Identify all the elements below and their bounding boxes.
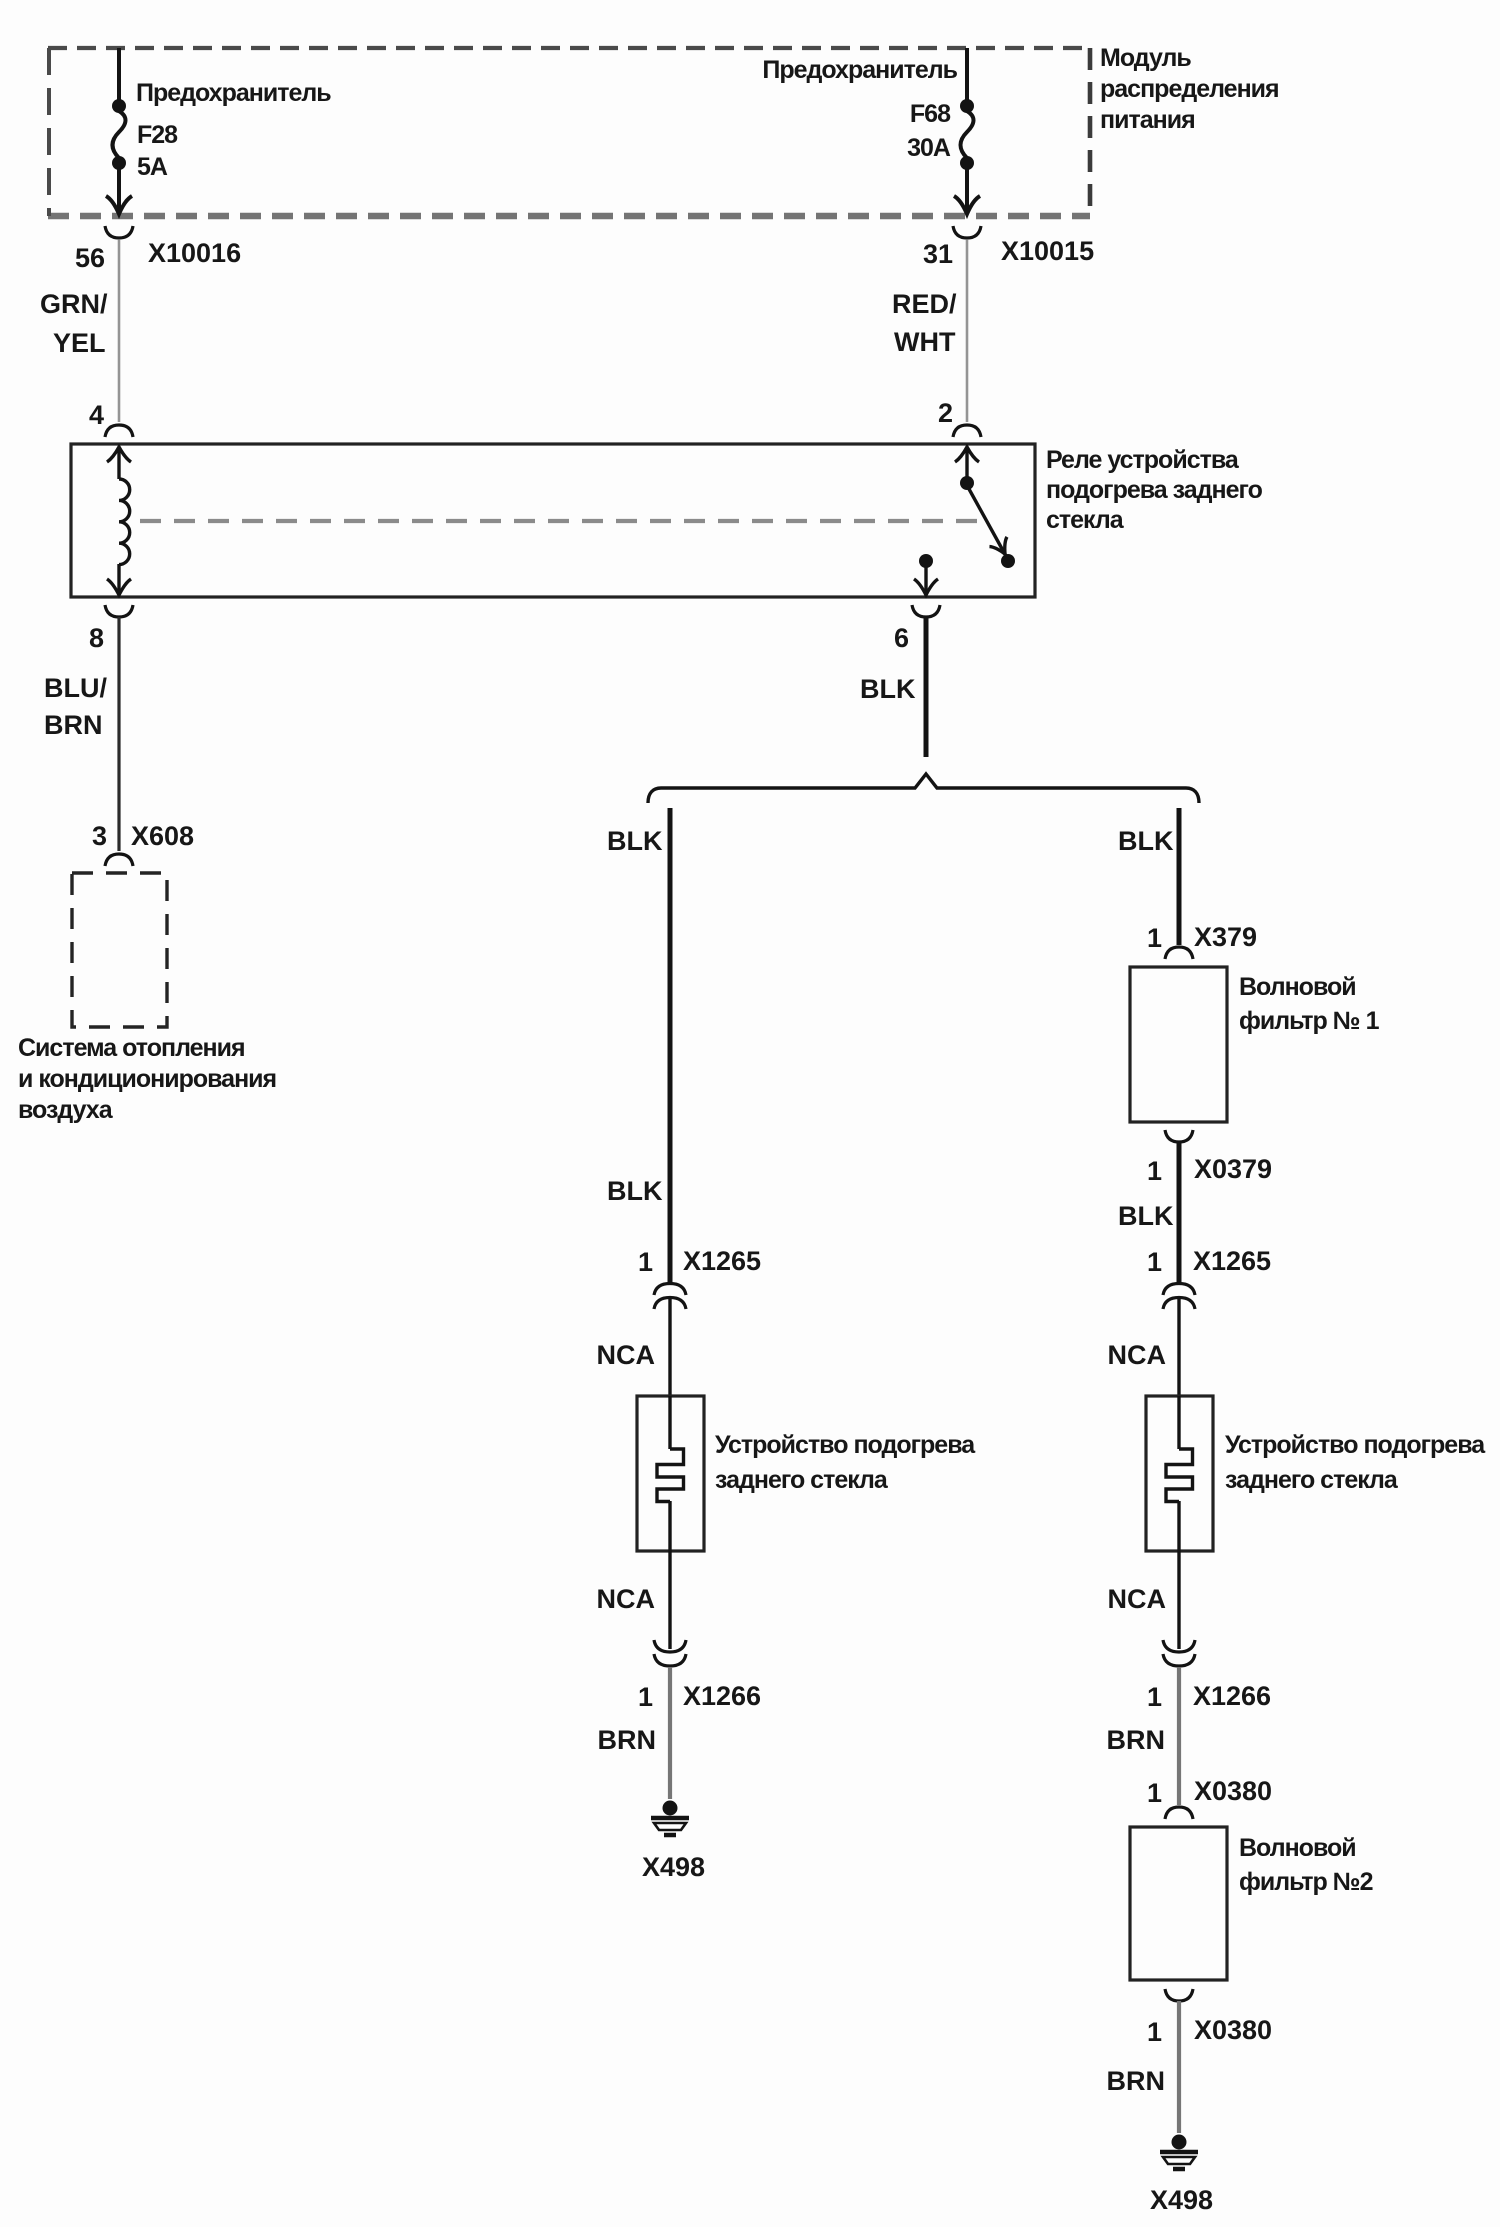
svg-text:NCA: NCA <box>1108 1584 1167 1614</box>
svg-text:GRN/: GRN/ <box>40 289 108 319</box>
svg-text:BRN: BRN <box>1107 1725 1166 1755</box>
svg-text:X0380: X0380 <box>1194 1776 1272 1806</box>
left branch wire BLK <box>607 808 670 1283</box>
wire NCA upper left <box>597 1298 671 1396</box>
svg-text:1: 1 <box>638 1682 653 1712</box>
svg-text:BRN: BRN <box>1107 2066 1166 2096</box>
svg-text:BLK: BLK <box>607 1176 663 1206</box>
svg-text:X1265: X1265 <box>683 1246 761 1276</box>
svg-text:BLK: BLK <box>860 674 916 704</box>
svg-text:YEL: YEL <box>53 328 106 358</box>
svg-text:X10015: X10015 <box>1001 236 1094 266</box>
svg-text:Волновой: Волновой <box>1239 973 1356 1001</box>
HVAC system dashed box <box>72 873 167 1027</box>
svg-text:BLK: BLK <box>607 826 663 856</box>
connector 1 X379 <box>1147 922 1257 959</box>
wire BLU/BRN <box>44 617 119 851</box>
node 4 connector arc <box>89 400 133 437</box>
wire NCA upper right <box>1108 1298 1180 1396</box>
ground X498 left <box>642 1801 705 1883</box>
svg-text:F68: F68 <box>910 100 951 128</box>
wire BRN left <box>598 1667 671 1799</box>
rear window heater element 2 box <box>1146 1396 1213 1551</box>
relay switch (pin 2 to pin 6) <box>914 447 1015 595</box>
wire RED/WHT <box>892 240 967 422</box>
connector 1 X0380 lower <box>1147 1989 1272 2047</box>
wave filter 2 box <box>1130 1827 1227 1980</box>
svg-text:X608: X608 <box>131 821 194 851</box>
connector 1 X1266 right <box>1147 1640 1271 1712</box>
svg-text:F28: F28 <box>137 121 178 149</box>
wave filter 2 label: Волновой фильтр №2 <box>1239 1834 1373 1896</box>
module label: Модуль распределения питания <box>1100 44 1279 134</box>
pin 6 connector arc <box>894 605 940 653</box>
svg-text:распределения: распределения <box>1100 75 1279 103</box>
brace split <box>648 774 1199 803</box>
relay internal dashed line <box>140 519 978 523</box>
svg-text:1: 1 <box>1147 1682 1162 1712</box>
svg-text:подогрева заднего: подогрева заднего <box>1046 476 1263 504</box>
svg-text:56: 56 <box>75 243 105 273</box>
fuse F68 30A <box>762 48 980 214</box>
svg-text:NCA: NCA <box>597 1584 656 1614</box>
svg-text:воздуха: воздуха <box>18 1096 114 1124</box>
right branch wire BLK <box>1118 808 1179 945</box>
svg-text:31: 31 <box>923 239 953 269</box>
relay label: Реле устройства подогрева заднего стекла <box>1046 446 1263 534</box>
svg-text:X498: X498 <box>642 1852 705 1882</box>
svg-text:X0379: X0379 <box>1194 1154 1272 1184</box>
svg-text:3: 3 <box>92 821 107 851</box>
svg-text:BRN: BRN <box>598 1725 657 1755</box>
svg-text:Волновой: Волновой <box>1239 1834 1356 1862</box>
svg-text:1: 1 <box>1147 1156 1162 1186</box>
relay coil (pin 4 to pin 8) <box>107 447 131 595</box>
svg-text:NCA: NCA <box>597 1340 656 1370</box>
wire BRN right upper <box>1107 1667 1180 1805</box>
ground X498 right <box>1150 2135 1213 2216</box>
svg-text:Реле устройства: Реле устройства <box>1046 446 1240 474</box>
connector 1 X1265 right <box>1147 1246 1271 1309</box>
svg-text:1: 1 <box>1147 923 1162 953</box>
svg-text:Система отопления: Система отопления <box>18 1034 245 1062</box>
connector X10015 <box>923 226 1094 269</box>
connector 1 X1265 left <box>638 1246 761 1309</box>
pin 8 connector arc <box>89 605 133 653</box>
svg-text:BRN: BRN <box>44 710 103 740</box>
svg-text:8: 8 <box>89 623 104 653</box>
wire NCA lower right <box>1108 1551 1180 1649</box>
svg-text:NCA: NCA <box>1108 1340 1167 1370</box>
svg-text:1: 1 <box>1147 1247 1162 1277</box>
wire GRN/YEL <box>40 240 119 422</box>
wire BRN right lower <box>1107 2001 1180 2133</box>
svg-text:фильтр №2: фильтр №2 <box>1239 1868 1373 1896</box>
svg-text:6: 6 <box>894 623 909 653</box>
svg-text:Предохранитель: Предохранитель <box>762 56 957 84</box>
wire BLK from pin 6 <box>860 617 926 757</box>
svg-text:фильтр № 1: фильтр № 1 <box>1239 1007 1380 1035</box>
svg-text:стекла: стекла <box>1046 506 1125 534</box>
connector 1 X0380 upper <box>1147 1776 1272 1819</box>
svg-text:X10016: X10016 <box>148 238 241 268</box>
connector 1 X1266 left <box>638 1640 761 1712</box>
HVAC label: Система отопления и кондиционирования воздуха <box>18 1034 276 1124</box>
heater 1 label: Устройство подогрева заднего стекла <box>715 1431 976 1494</box>
node 2 connector arc <box>938 398 981 437</box>
svg-text:2: 2 <box>938 398 953 428</box>
svg-text:Устройство подогрева: Устройство подогрева <box>715 1431 976 1459</box>
svg-text:X1266: X1266 <box>683 1681 761 1711</box>
svg-text:X0380: X0380 <box>1194 2015 1272 2045</box>
svg-text:WHT: WHT <box>894 327 956 357</box>
svg-text:питания: питания <box>1100 106 1195 134</box>
svg-text:30A: 30A <box>907 134 951 162</box>
connector X10016 <box>75 226 241 273</box>
wave filter 1 box <box>1130 967 1227 1122</box>
rear window heater element 1 box <box>637 1396 704 1551</box>
wire NCA lower left <box>597 1551 671 1649</box>
connector 1 X0379 <box>1147 1130 1272 1186</box>
svg-text:X379: X379 <box>1194 922 1257 952</box>
svg-text:X1266: X1266 <box>1193 1681 1271 1711</box>
fuse F28 5A <box>106 48 331 214</box>
svg-text:Устройство подогрева: Устройство подогрева <box>1225 1431 1486 1459</box>
svg-text:заднего стекла: заднего стекла <box>715 1466 889 1494</box>
wire BLK right middle <box>1118 1142 1179 1283</box>
connector 3 X608 <box>92 821 194 866</box>
svg-text:1: 1 <box>638 1247 653 1277</box>
svg-text:и кондиционирования: и кондиционирования <box>18 1065 276 1093</box>
svg-text:RED/: RED/ <box>892 289 957 319</box>
svg-text:1: 1 <box>1147 2017 1162 2047</box>
relay box <box>71 444 1035 597</box>
svg-text:Модуль: Модуль <box>1100 44 1191 72</box>
svg-text:BLU/: BLU/ <box>44 673 107 703</box>
svg-text:X498: X498 <box>1150 2185 1213 2215</box>
svg-text:BLK: BLK <box>1118 826 1174 856</box>
svg-text:Предохранитель: Предохранитель <box>136 79 331 107</box>
svg-text:5A: 5A <box>137 153 168 181</box>
heater 2 label: Устройство подогрева заднего стекла <box>1225 1431 1486 1494</box>
svg-text:BLK: BLK <box>1118 1201 1174 1231</box>
svg-text:1: 1 <box>1147 1778 1162 1808</box>
power distribution module dashed box <box>48 48 1090 216</box>
wave filter 1 label: Волновой фильтр № 1 <box>1239 973 1380 1035</box>
svg-text:заднего стекла: заднего стекла <box>1225 1466 1399 1494</box>
svg-text:X1265: X1265 <box>1193 1246 1271 1276</box>
svg-text:4: 4 <box>89 400 104 430</box>
